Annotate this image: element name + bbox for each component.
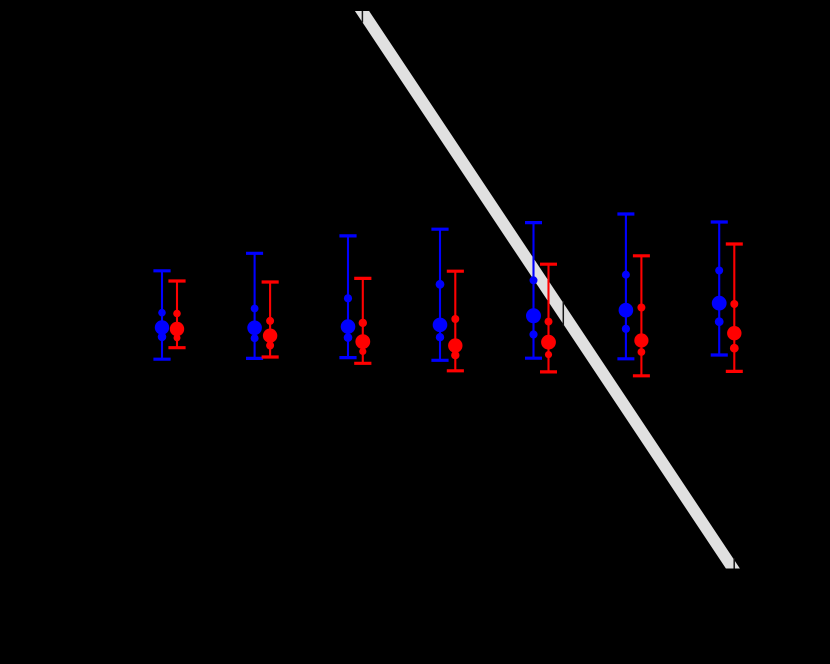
band seam 2 (562, 301, 564, 326)
group 5 blue errorbar (525, 223, 542, 359)
group 2 blue errorbar (246, 253, 263, 358)
group 4 red errorbar (447, 271, 464, 371)
group 3 blue errorbar (339, 236, 356, 358)
group 7 blue errorbar (711, 222, 728, 355)
group 6 red errorbar (633, 256, 650, 376)
group 1 red errorbar (168, 281, 185, 348)
band seam 1 (361, 11, 363, 23)
group 7 red errorbar (726, 244, 743, 371)
group 2 red errorbar (262, 282, 279, 357)
group 1 blue errorbar (153, 271, 170, 359)
group 6 blue errorbar (617, 214, 634, 359)
band seam 3 (733, 558, 735, 569)
gray diagonal band (355, 11, 740, 569)
group 3 red errorbar (354, 278, 371, 363)
group 4 blue errorbar (431, 229, 448, 360)
group 5 red errorbar (540, 264, 557, 372)
